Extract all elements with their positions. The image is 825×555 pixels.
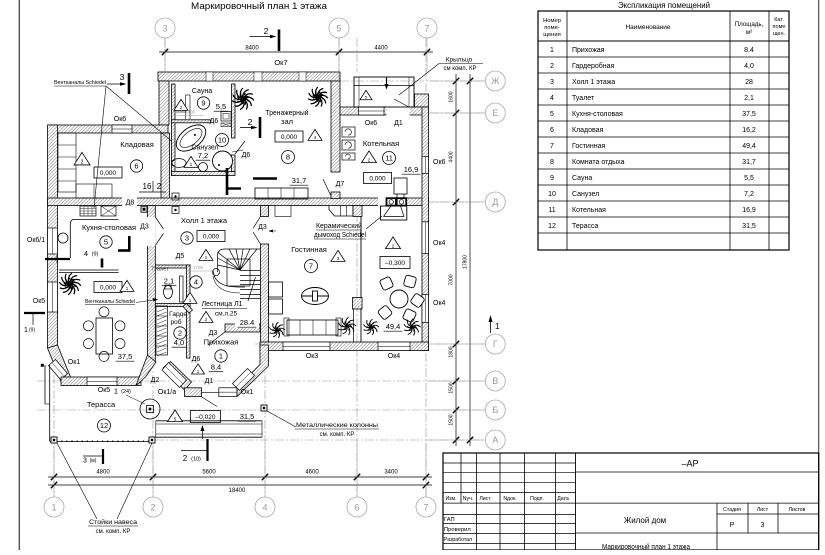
wall right exterior (422, 107, 429, 351)
window Ok1 band in right diagonal (233, 369, 255, 391)
svg-text:–0,020: –0,020 (196, 414, 216, 421)
svg-text:31,7: 31,7 (292, 176, 307, 185)
svg-text:Д6: Д6 (210, 118, 219, 125)
svg-text:12: 12 (548, 223, 556, 230)
svg-text:8,4: 8,4 (211, 363, 221, 372)
svg-text:1700: 1700 (193, 265, 204, 270)
svg-text:поме-: поме- (544, 25, 560, 31)
svg-text:А: А (492, 435, 498, 445)
svg-text:1: 1 (24, 327, 28, 334)
grid circle 3 (155, 18, 175, 38)
toilet door leaf (180, 276, 184, 302)
svg-text:4,0: 4,0 (744, 63, 754, 70)
svg-text:Стойки навеса: Стойки навеса (89, 519, 138, 526)
svg-text:Терасса: Терасса (87, 400, 116, 409)
svg-text:1600: 1600 (449, 91, 455, 102)
kitchen vent circle (58, 233, 68, 243)
wall living room west upper stub (261, 206, 269, 217)
terrace column footings (51, 437, 57, 443)
svg-text:11: 11 (548, 207, 555, 214)
svg-text:Вентканалы Schiedel: Вентканалы Schiedel (85, 299, 135, 305)
plant (308, 87, 328, 107)
boiler equipment (342, 127, 355, 137)
svg-text:4,0: 4,0 (174, 338, 184, 347)
plant (339, 317, 357, 335)
svg-text:49,4: 49,4 (742, 143, 756, 150)
svg-text:16: 16 (143, 182, 152, 191)
title block (443, 453, 819, 551)
plant (404, 319, 421, 336)
room schedule table (538, 0, 789, 250)
svg-text:Ок5: Ок5 (33, 298, 46, 305)
svg-text:Ок6: Ок6 (365, 120, 378, 127)
section flag 2(10) bottom (181, 450, 208, 452)
window Ok4 right wall upper (422, 222, 429, 254)
svg-text:0,000: 0,000 (281, 134, 298, 141)
axis line G (255, 343, 485, 345)
svg-text:5: 5 (336, 24, 341, 34)
door D1 threshold (199, 391, 219, 393)
svg-text:8: 8 (550, 159, 554, 166)
svg-text:роб: роб (171, 318, 182, 326)
svg-text:Наименование: Наименование (625, 24, 670, 31)
svg-text:0,000: 0,000 (100, 284, 117, 291)
dim line right inner (455, 74, 457, 446)
wall top exterior (158, 72, 340, 81)
living couch (287, 320, 338, 335)
svg-text:Жилой дом: Жилой дом (624, 516, 666, 525)
svg-text:2: 2 (550, 63, 554, 70)
kitchen sink (101, 206, 116, 216)
svg-text:18400: 18400 (229, 488, 246, 494)
svg-text:Маркировочный план 1 этажа: Маркировочный план 1 этажа (191, 1, 328, 12)
svg-text:28.4: 28.4 (240, 318, 255, 327)
svg-text:0,000: 0,000 (369, 175, 386, 182)
svg-text:12: 12 (100, 421, 108, 430)
stairs L1 (213, 249, 261, 299)
grid circle 7 top (417, 18, 437, 38)
door sauna-gym leaf (235, 141, 245, 154)
svg-text:(24): (24) (121, 389, 131, 395)
wardrobe shelf strip (156, 306, 168, 355)
window Ok6 storage top (112, 125, 132, 133)
svg-text:1: 1 (495, 322, 500, 331)
svg-text:Ок4: Ок4 (388, 353, 401, 360)
dim line bottom 2 total (48, 484, 432, 486)
svg-text:Д: Д (492, 197, 498, 207)
svg-text:2: 2 (264, 26, 269, 36)
wall connector left of gym (159, 81, 169, 125)
svg-text:7000: 7000 (449, 274, 455, 285)
svg-text:4: 4 (262, 503, 267, 513)
window Ok4 right wall lower (422, 294, 429, 322)
svg-text:Проверил: Проверил (444, 527, 471, 533)
plant (364, 319, 380, 335)
svg-text:Ок1: Ок1 (241, 389, 254, 396)
svg-text:4400: 4400 (449, 151, 455, 162)
metal column circle mark (140, 399, 160, 419)
window Ok3 (283, 342, 330, 351)
svg-text:7,2: 7,2 (744, 191, 754, 198)
svg-text:2,1: 2,1 (164, 277, 174, 286)
svg-text:5,5: 5,5 (216, 102, 226, 111)
svg-text:16,2: 16,2 (742, 127, 756, 134)
section flag 1 left (24, 312, 45, 314)
svg-text:Д6: Д6 (242, 152, 251, 159)
svg-text:1: 1 (219, 352, 223, 361)
wall entry bay bottom (185, 388, 202, 397)
svg-text:Лестница Л1: Лестница Л1 (202, 301, 243, 308)
door D1 entry leaf (201, 397, 217, 407)
axis line 7 (425, 38, 427, 497)
svg-text:В: В (492, 376, 498, 386)
pier stub axis6 below wall (353, 206, 362, 217)
svg-text:Д8: Д8 (126, 200, 135, 207)
svg-text:(9): (9) (29, 328, 35, 334)
window Ok5 kitchen bay (87, 377, 117, 386)
svg-text:Д2: Д2 (151, 377, 160, 384)
svg-text:Кладовая: Кладовая (120, 140, 154, 149)
svg-text:4: 4 (194, 278, 198, 287)
svg-text:Маркировочный план 1 этажа: Маркировочный план 1 этажа (602, 543, 690, 550)
porch step arrow (386, 78, 388, 86)
svg-text:щен.: щен. (773, 31, 786, 37)
svg-text:4: 4 (550, 95, 554, 102)
svg-text:31,7: 31,7 (742, 159, 756, 166)
svg-text:Ок4: Ок4 (433, 300, 446, 307)
svg-text:Подп.: Подп. (530, 496, 544, 502)
svg-text:16,9: 16,9 (404, 165, 419, 174)
dining table (96, 318, 113, 354)
svg-text:Площадь,: Площадь, (735, 21, 764, 28)
svg-text:17800: 17800 (463, 255, 469, 269)
svg-text:10: 10 (548, 191, 556, 198)
svg-text:Д1: Д1 (205, 378, 214, 385)
svg-text:ГАП: ГАП (444, 517, 455, 523)
svg-text:9: 9 (201, 99, 205, 108)
svg-text:Санузел: Санузел (572, 191, 599, 198)
svg-text:см комп. КР: см комп. КР (443, 66, 476, 72)
svg-text:Изм.: Изм. (445, 496, 456, 502)
svg-text:(м): (м) (90, 458, 97, 464)
section flag 3m bottom (83, 455, 103, 457)
svg-text:Д7: Д7 (336, 181, 345, 188)
axis line Zh (340, 80, 485, 82)
axis line E (340, 112, 485, 114)
svg-text:Котельная: Котельная (363, 139, 399, 148)
svg-text:Ок6: Ок6 (114, 116, 127, 123)
vent box at wall junction (141, 206, 147, 212)
level mark -0,020 (168, 410, 183, 422)
svg-text:Д5: Д5 (176, 253, 185, 260)
bottom axis extension lines (53, 443, 55, 497)
svg-text:1: 1 (114, 387, 118, 396)
floor step line winter garden (360, 206, 362, 342)
svg-text:Прихожая: Прихожая (572, 47, 605, 54)
svg-text:1500: 1500 (449, 414, 455, 425)
terrace left pilaster (44, 365, 46, 404)
door D7 leaf (323, 179, 331, 196)
bath vent box (172, 193, 179, 200)
svg-text:8.4: 8.4 (744, 47, 754, 54)
svg-text:10: 10 (218, 136, 226, 145)
svg-text:Листов: Листов (789, 507, 806, 513)
svg-text:Д3: Д3 (209, 330, 218, 337)
svg-text:Ок1: Ок1 (68, 359, 81, 366)
svg-text:поме: поме (773, 24, 786, 30)
svg-text:2: 2 (157, 182, 162, 191)
boiler tank (394, 178, 407, 194)
svg-text:Кухня-столовая: Кухня-столовая (572, 111, 623, 118)
svg-text:11: 11 (385, 154, 393, 163)
axis line V (37, 380, 485, 382)
dim line top (159, 51, 433, 53)
svg-text:Г: Г (493, 339, 498, 349)
svg-text:7: 7 (423, 503, 428, 513)
svg-text:Ок3: Ок3 (306, 353, 319, 360)
door D3 stairs leaf (208, 332, 225, 345)
armchair left (269, 282, 283, 297)
svg-text:2: 2 (248, 117, 253, 127)
window Ok6/1 left wall (48, 228, 58, 254)
svg-text:5600: 5600 (202, 470, 216, 476)
storage shelves (58, 133, 76, 192)
svg-text:Nуч.: Nуч. (463, 496, 473, 502)
wall toilet/wardrobe partition top (155, 265, 190, 268)
wall kitchen bay diagonal right (136, 355, 156, 386)
svg-text:Стадия: Стадия (723, 507, 741, 513)
svg-text:Гостинная: Гостинная (291, 245, 327, 254)
label -0,300 (386, 237, 401, 249)
svg-text:Гарде: Гарде (169, 311, 187, 318)
wardrobe chamfer (183, 304, 193, 314)
svg-text:Кухня-столовая: Кухня-столовая (82, 223, 136, 232)
window Ok6 right wall (422, 157, 429, 174)
axis line 2 (152, 330, 154, 497)
bath stove round (213, 151, 233, 171)
svg-text:5: 5 (550, 111, 554, 118)
svg-text:(9): (9) (92, 252, 99, 258)
plant (59, 273, 81, 295)
svg-text:2: 2 (81, 160, 84, 166)
porch outline (354, 77, 414, 107)
svg-text:16,9: 16,9 (742, 207, 756, 214)
svg-text:7: 7 (424, 24, 429, 34)
grid circles bottom (44, 497, 64, 517)
svg-text:3: 3 (162, 24, 167, 34)
svg-text:Гостинная: Гостинная (572, 143, 605, 150)
svg-text:Терасса: Терасса (572, 223, 599, 230)
svg-text:Туалет: Туалет (572, 95, 595, 102)
svg-text:1500: 1500 (449, 382, 455, 393)
sauna dim 1400 gray (177, 115, 204, 117)
svg-text:2: 2 (183, 454, 188, 463)
sheet frame right border (818, 0, 820, 550)
svg-text:8: 8 (286, 153, 290, 162)
svg-text:4800: 4800 (96, 470, 110, 476)
svg-text:4400: 4400 (374, 46, 388, 52)
svg-text:3: 3 (185, 234, 189, 243)
svg-text:Nдок.: Nдок. (503, 496, 516, 502)
svg-text:49,4: 49,4 (386, 322, 401, 331)
section arrow 1 right (490, 318, 492, 333)
svg-text:Прихожая: Прихожая (204, 338, 239, 347)
wall sauna/bath partition (172, 120, 211, 123)
svg-text:Туалет: Туалет (151, 267, 169, 273)
svg-text:Д6: Д6 (192, 356, 201, 363)
stairs dim 1700 gray (185, 270, 212, 272)
wall entry bay diagonal left (163, 362, 192, 391)
axis line 5 (338, 38, 340, 110)
svg-text:7: 7 (309, 262, 313, 271)
fireplace (387, 198, 397, 205)
svg-text:–0,300: –0,300 (385, 260, 405, 267)
dim line right outer total (469, 74, 471, 446)
wall sauna block west (172, 84, 176, 176)
wall toilet/wardrobe divider (155, 304, 190, 307)
svg-text:3: 3 (550, 79, 554, 86)
axis line 6 (356, 38, 358, 72)
vent leader lines (94, 86, 106, 208)
window Ok1/a band in left diagonal (162, 363, 187, 388)
svg-text:дымоход Schiedel: дымоход Schiedel (314, 232, 366, 239)
svg-text:3: 3 (761, 522, 765, 529)
door D3 living room double leaves (253, 217, 261, 229)
svg-text:2,1: 2,1 (744, 95, 754, 102)
window Ok1 entry bay (219, 388, 237, 397)
svg-text:(10): (10) (191, 457, 201, 463)
svg-text:31,5: 31,5 (742, 223, 756, 230)
wall vent boxes in top wall (206, 72, 213, 81)
entry step band (156, 420, 262, 422)
wall kitchen east / hall west (148, 206, 156, 363)
svg-text:–АР: –АР (681, 459, 698, 469)
toilet (172, 159, 186, 168)
svg-text:9: 9 (550, 175, 554, 182)
wall storage east (161, 133, 170, 206)
svg-text:1800: 1800 (449, 346, 455, 357)
door D8 opening (122, 197, 137, 206)
svg-text:3: 3 (83, 458, 87, 465)
svg-text:Лист: Лист (757, 507, 769, 513)
svg-text:Ок5: Ок5 (98, 387, 111, 394)
wall kitchen bay bottom (61, 377, 141, 386)
svg-text:Д3: Д3 (258, 224, 267, 231)
plant (270, 322, 286, 338)
svg-text:Ок6/1: Ок6/1 (27, 237, 45, 244)
wall living room bottom (260, 342, 429, 351)
svg-text:Ок6: Ок6 (433, 159, 446, 166)
svg-text:3400: 3400 (384, 470, 398, 476)
sauna heater (221, 112, 231, 122)
svg-text:6: 6 (134, 162, 138, 171)
svg-text:Разработал: Разработал (444, 537, 472, 543)
porch triangle 5 mark (360, 90, 372, 99)
svg-text:Тренажерный: Тренажерный (266, 108, 309, 117)
svg-text:Б: Б (492, 405, 498, 415)
svg-text:м²: м² (746, 29, 752, 36)
svg-text:Комната отдыха: Комната отдыха (572, 159, 625, 166)
svg-text:2: 2 (178, 329, 182, 338)
svg-text:Крыльцо: Крыльцо (446, 57, 473, 64)
fireplace base interrupting wall (378, 197, 407, 206)
svg-text:2: 2 (150, 503, 155, 513)
door D3 double leaf opening (147, 217, 156, 246)
right axis extension lines (429, 80, 486, 82)
svg-text:Котельная: Котельная (572, 207, 606, 214)
svg-text:Гардеробная: Гардеробная (572, 62, 615, 70)
terrace outline (49, 365, 51, 441)
pier on axis 6 (353, 298, 363, 310)
svg-text:Д1: Д1 (394, 120, 403, 127)
window Ok6 boiler top (359, 107, 385, 115)
kitchen stove (80, 206, 96, 216)
svg-text:37,5: 37,5 (118, 352, 133, 361)
wall boiler room top (340, 107, 429, 115)
svg-text:0,000: 0,000 (100, 170, 117, 177)
axis line 3 (164, 38, 166, 130)
svg-text:7,2: 7,2 (198, 151, 208, 160)
stairs leader (248, 277, 256, 301)
svg-text:Номер: Номер (543, 18, 561, 24)
wall living room west (261, 244, 269, 345)
svg-text:см. комп. КР: см. комп. КР (96, 529, 131, 535)
svg-text:1: 1 (51, 503, 56, 513)
wall under stairs (225, 324, 260, 332)
svg-text:Д3: Д3 (140, 224, 149, 231)
svg-text:Сауна: Сауна (192, 88, 212, 95)
wall left exterior (48, 125, 58, 348)
wall entry bay diagonal right and corner (237, 345, 269, 397)
svg-text:Холл 1 этажа: Холл 1 этажа (181, 216, 228, 225)
window Ok1 band in kitchen diagonal (49, 360, 68, 380)
window Ok5 left wall (48, 282, 58, 312)
svg-text:зал: зал (281, 117, 293, 126)
axis line D (140, 201, 485, 203)
svg-text:Вентканалы Schiedel: Вентканалы Schiedel (54, 80, 106, 86)
svg-text:31,5: 31,5 (240, 412, 255, 421)
axis line B (37, 409, 485, 411)
svg-text:Дата: Дата (557, 496, 569, 502)
label 28.4 (235, 317, 259, 328)
svg-text:Ок7: Ок7 (274, 58, 287, 67)
svg-text:7: 7 (550, 143, 554, 150)
wall storage room top (48, 125, 168, 133)
svg-text:1: 1 (550, 47, 554, 54)
svg-text:Металлические колонны: Металлические колонны (296, 423, 378, 429)
svg-text:Ок1/а: Ок1/а (158, 389, 176, 396)
svg-text:Кладовая: Кладовая (572, 127, 604, 134)
svg-text:Ж: Ж (491, 76, 500, 86)
wall D-axis main horizontal (48, 198, 429, 206)
svg-text:37,5: 37,5 (742, 111, 756, 118)
toilet fixture room 4 (164, 286, 173, 299)
svg-text:Сауна: Сауна (572, 175, 592, 182)
svg-text:5,5: 5,5 (744, 175, 754, 182)
kitchen counter (70, 220, 118, 259)
svg-text:Холл 1 этажа: Холл 1 этажа (572, 79, 615, 86)
gym couch (255, 188, 308, 199)
hall bench under wall (329, 206, 353, 216)
wall kitchen bay diagonal left (48, 345, 71, 382)
svg-text:3: 3 (120, 72, 125, 82)
plant (232, 88, 254, 110)
bathtub (171, 120, 210, 157)
gym barbell bar (253, 177, 277, 180)
label kitchen level (94, 282, 122, 293)
living room fan symbol (302, 288, 329, 305)
grid circle 5 (329, 18, 349, 38)
